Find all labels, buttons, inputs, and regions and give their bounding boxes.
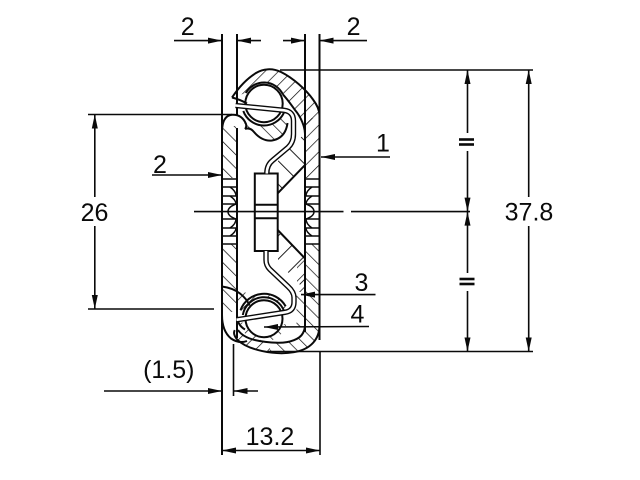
bottom flange inner curve: [238, 325, 305, 343]
center block rectangle: [255, 174, 278, 252]
upper web boundary diagonal: [278, 165, 305, 193]
right bottom extension line: [268, 351, 533, 353]
arrowhead leader 1: [321, 154, 335, 160]
strip lower: [237, 251, 295, 320]
inner rail top lip U: [245, 123, 288, 141]
lower web hatch: [278, 230, 305, 290]
bottom ball ring hatch lower-right: [260, 324, 286, 342]
arrowhead dim 1.5 left: [208, 388, 222, 394]
corner hatch: [297, 293, 306, 327]
bottom-left wedge hatch: [237, 287, 252, 309]
strip-side hatch: [297, 258, 305, 292]
13.2 extension line: [319, 352, 321, 455]
svg-text:37.8: 37.8: [505, 199, 554, 227]
inner rail outer face: [221, 34, 223, 455]
top dim line right: [283, 40, 305, 42]
right wall scallops: [306, 179, 319, 244]
1.5 dim line: [104, 390, 222, 392]
top flange inner curve: [232, 95, 305, 134]
bottom ball ring hatch upper-left: [241, 294, 286, 315]
arrowhead equal dim bottom: [465, 338, 471, 352]
leader 2 mid-left: [152, 174, 222, 176]
bottom ball clearance arc: [243, 297, 284, 315]
dimension texts: [81, 13, 554, 451]
bottom-left wedge boundary: [222, 287, 250, 306]
center line: [194, 211, 344, 213]
svg-text:4: 4: [351, 301, 365, 329]
outer rail inner face: [304, 34, 306, 332]
top flange outer curve: [232, 69, 320, 115]
26 extension lines: [88, 114, 232, 116]
arrowhead top dim 2-right, left-pointing: [320, 38, 334, 44]
inner rail top cap dome: [222, 115, 246, 131]
arrowhead top dim 2-left, right-pointing: [208, 38, 222, 44]
right wall hatch upper: [306, 118, 319, 178]
upper web hatch: [278, 133, 305, 193]
arrowhead dim 26 top: [92, 115, 98, 129]
leader 1: [321, 156, 390, 158]
strip upper: [236, 106, 294, 174]
arrowhead dim 37.8 top: [526, 70, 532, 84]
bottom band hatch: [230, 315, 322, 360]
left wall hatch lower: [223, 244, 236, 312]
top ball: [245, 85, 282, 122]
arrowhead dim 26 bottom: [92, 295, 98, 309]
svg-text:13.2: 13.2: [246, 423, 295, 451]
arrowhead leader 3: [301, 292, 315, 298]
13.2 dim line: [222, 450, 320, 452]
arrowhead equal dim lower-center: [465, 212, 471, 226]
svg-text:2: 2: [153, 151, 167, 179]
svg-text:2: 2: [181, 13, 195, 41]
svg-text:26: 26: [81, 199, 109, 227]
inner rail inner face upper: [236, 34, 238, 115]
svg-text:(1.5): (1.5): [143, 356, 194, 384]
svg-text:1: 1: [376, 130, 390, 158]
arrowheads: [92, 38, 532, 454]
equal-halves dim line: [467, 70, 469, 133]
leader 4: [264, 326, 369, 329]
inner rail bottom lip curl: [222, 315, 247, 342]
right wall hatch lower: [306, 244, 319, 318]
equals symbol upper: [459, 138, 474, 141]
left wall scallops: [223, 179, 236, 244]
top dim line left: [174, 40, 222, 42]
26 dim line: [94, 115, 96, 198]
equals symbols: [459, 140, 475, 285]
arrowhead equal dim upper-center: [465, 198, 471, 212]
bottom flange outer curve: [234, 325, 319, 353]
top race arc: [246, 83, 283, 95]
top ball clearance arc: [243, 111, 284, 125]
arrowhead leader 4: [264, 324, 278, 330]
arrowhead leader 2 mid-left: [208, 172, 222, 178]
bottom ball: [246, 300, 283, 337]
svg-text:2: 2: [347, 13, 361, 41]
arrowhead dim 13.2 right: [306, 448, 320, 454]
leader 3: [301, 294, 376, 296]
arrowhead top dim 2-left, left-pointing: [237, 38, 251, 44]
bottom ball ring hatch lower-left: [240, 322, 260, 342]
top flange band hatch: [232, 69, 320, 134]
arrowhead dim 1.5 right: [234, 388, 248, 394]
left wall hatch upper: [223, 126, 236, 178]
1.5 extension line: [233, 344, 235, 396]
arrowhead top dim 2-right, right-pointing: [291, 38, 305, 44]
arrowhead equal dim top: [465, 70, 471, 84]
lower web boundary diagonal: [278, 230, 305, 258]
right top extension line: [280, 69, 533, 71]
bottom ball race arc: [241, 294, 286, 310]
top lip hatch: [243, 111, 287, 141]
svg-text:3: 3: [355, 269, 369, 297]
arrowhead dim 13.2 left: [222, 448, 236, 454]
outer rail outer face: [319, 34, 321, 340]
arrowhead dim 37.8 bottom: [526, 338, 532, 352]
equals symbol lower: [460, 278, 475, 281]
37.8 dim line: [528, 70, 530, 197]
inner rail inner face lower: [236, 128, 238, 338]
